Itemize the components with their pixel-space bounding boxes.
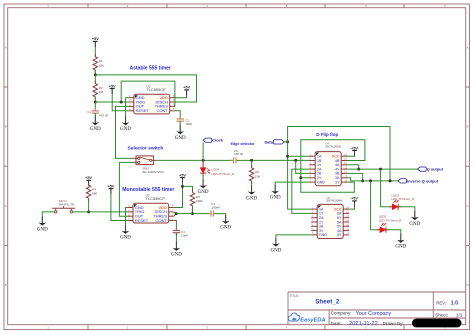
svg-text:Company:: Company: — [331, 311, 352, 316]
svg-text:GND: GND — [171, 253, 182, 258]
wire R6 to ground — [251, 181, 253, 192]
wire clock node to LED4 — [202, 160, 204, 167]
wire +5V to R1 — [94, 41, 96, 56]
svg-text:4Y: 4Y — [337, 233, 342, 237]
net flag Inverse Q output — [398, 178, 439, 183]
wire R6 top — [251, 160, 253, 168]
LED LED4 — [200, 162, 235, 177]
svg-text:LED4: LED4 — [212, 168, 220, 172]
wire clock node to U4 2B pin — [296, 160, 310, 173]
svg-text:Clock: Clock — [212, 138, 223, 143]
svg-text:SN74LS00N: SN74LS00N — [325, 144, 341, 148]
wire LED4 to ground — [202, 173, 204, 185]
node +5V/R3 branch — [181, 185, 184, 188]
svg-text:Astable 555 timer: Astable 555 timer — [130, 66, 171, 72]
svg-text:Q output: Q output — [427, 167, 444, 172]
svg-text:GND: GND — [409, 222, 420, 227]
svg-text:+5V: +5V — [85, 175, 92, 180]
net flag Data — [264, 139, 284, 144]
wire R2 to TRIG node — [94, 97, 96, 102]
svg-text:2B: 2B — [317, 172, 322, 176]
capacitor C3 — [173, 227, 188, 237]
svg-text:GND: GND — [246, 196, 257, 201]
node Q/LED2 junction — [379, 168, 382, 171]
wire U4 3B to inverse Q line — [346, 173, 362, 181]
svg-text:TLC555CP: TLC555CP — [146, 87, 166, 92]
node TRIG loop junction — [120, 101, 123, 104]
net flag Clock — [203, 138, 224, 143]
ground (LED3) — [395, 234, 406, 250]
wire +5V to U1 RESET — [112, 89, 129, 111]
wire C4 to ground — [215, 214, 226, 221]
switch SW1 — [134, 156, 164, 174]
svg-text:D Flip flop: D Flip flop — [316, 132, 338, 137]
svg-text:Data: Data — [264, 139, 273, 144]
svg-text:SK-12D02-VG3: SK-12D02-VG3 — [142, 170, 163, 174]
svg-text:GND: GND — [319, 233, 327, 237]
svg-text:+5V: +5V — [179, 172, 186, 177]
svg-text:+5V: +5V — [351, 196, 358, 201]
resistor R1 — [93, 54, 104, 73]
redacted drawn-by name — [412, 319, 462, 328]
svg-text:10nF: 10nF — [181, 233, 188, 237]
node R1/R2 junction — [94, 73, 97, 76]
svg-text:Sheet_2: Sheet_2 — [315, 299, 340, 306]
svg-text:RESET: RESET — [135, 218, 149, 223]
svg-text:RESET: RESET — [136, 108, 150, 113]
wire R1/R2 node to DISCH — [95, 75, 196, 102]
EasyEDA logo — [288, 313, 325, 323]
wire U2 DISCH/THRES to C4 — [174, 212, 176, 214]
capacitor C1 — [87, 108, 108, 118]
svg-text:R6: R6 — [255, 170, 259, 174]
LED LED3 — [377, 215, 402, 233]
svg-text:D: D — [467, 283, 469, 287]
svg-text:C: C — [5, 204, 7, 208]
+5V power flag (R1 top) — [92, 36, 99, 47]
svg-text:+5V: +5V — [92, 36, 99, 41]
svg-text:GND: GND — [120, 127, 131, 132]
ground (KEY1) — [37, 216, 48, 232]
+5V power flag (U2 VDD / R3) — [179, 172, 186, 183]
wire KEY1 to U2 TRIG — [73, 211, 129, 213]
resistor R2 — [93, 81, 103, 100]
svg-text:A: A — [467, 45, 469, 49]
svg-text:GND: GND — [395, 245, 406, 250]
wire U4 3A to inverse Q line — [346, 178, 350, 181]
ground (U4 GND pin) — [270, 185, 281, 201]
ground (C4) — [220, 215, 231, 231]
svg-text:LED-TH-5mm_R: LED-TH-5mm_R — [212, 172, 235, 176]
wire C1 to ground — [94, 113, 96, 122]
ground (C2) — [175, 125, 186, 141]
svg-text:GND: GND — [90, 127, 101, 132]
wire LED3 to ground — [386, 230, 401, 240]
wire Q line to LED2 — [381, 169, 393, 207]
op-amp U2 (TLC555CP monostable) — [128, 193, 174, 223]
svg-text:R4: R4 — [92, 187, 96, 191]
wire switch common to clock line — [156, 159, 232, 161]
wire +5V to U2 VDD — [174, 178, 183, 208]
wire R3 to THRES line — [192, 206, 194, 214]
svg-text:GND: GND — [220, 226, 231, 231]
wire loop node to U4 2Y pin — [301, 177, 310, 179]
wire Q output line — [346, 168, 417, 170]
node clock/LED4 — [202, 159, 205, 162]
svg-text:EasyEDA: EasyEDA — [300, 317, 325, 323]
svg-text:1M: 1M — [99, 90, 104, 94]
wire TRIG to THRES loop — [121, 81, 175, 106]
svg-text:GND: GND — [317, 180, 325, 184]
logic IC U3 (SN74LS04N) — [311, 196, 349, 239]
node DISCH/THRES tie — [175, 212, 178, 215]
svg-text:1.0: 1.0 — [451, 301, 458, 307]
svg-text:+5V: +5V — [183, 85, 190, 90]
svg-text:10k: 10k — [255, 175, 260, 179]
svg-text:Sheet:: Sheet: — [435, 313, 448, 318]
wire R4 to TRIG line — [88, 198, 90, 212]
wire +5V to U4 VCC — [346, 151, 354, 157]
wire U4 GND pin to ground — [275, 182, 309, 191]
ground (LED4) — [198, 179, 209, 195]
svg-text:Edge detector: Edge detector — [231, 142, 256, 146]
svg-text:B: B — [5, 125, 7, 129]
capacitor C4 — [208, 202, 220, 217]
ground (C1) — [90, 116, 101, 132]
+5V power flag (U2 RESET) — [107, 183, 114, 194]
svg-text:1/1: 1/1 — [456, 313, 463, 319]
svg-text:B: B — [467, 125, 469, 129]
wire C2 to ground — [179, 121, 181, 131]
svg-text:D: D — [5, 283, 7, 287]
net flag Q output — [418, 167, 444, 172]
push button KEY1 — [52, 199, 75, 213]
svg-text:3Y: 3Y — [335, 180, 340, 184]
capacitor C5 (edge detector) — [230, 149, 243, 164]
op-amp U1 (TLC555CP astable) — [129, 84, 175, 114]
node loop to U4 2Y — [299, 176, 302, 179]
svg-text:+5V: +5V — [107, 183, 114, 188]
wire +5V to U1 VDD — [175, 90, 187, 98]
wire +5V to U2 RESET — [111, 189, 129, 221]
svg-text:Selector switch: Selector switch — [128, 145, 164, 151]
svg-text:3B: 3B — [335, 172, 340, 176]
svg-text:A: A — [5, 45, 7, 49]
svg-text:GND: GND — [37, 227, 48, 232]
svg-text:TLC555CP: TLC555CP — [146, 196, 166, 201]
node loop to U4 1A — [286, 155, 289, 158]
+5V power flag (U4 VCC) — [351, 145, 358, 156]
wire clock node to Clock flag — [202, 142, 204, 160]
wire +5V node to R3 — [183, 186, 193, 192]
svg-text:Date:: Date: — [331, 321, 342, 326]
svg-text:2021-11-22: 2021-11-22 — [349, 321, 378, 327]
svg-text:GND: GND — [270, 248, 281, 253]
ground (R6) — [246, 185, 257, 201]
wire U4 4A to Q line — [346, 165, 358, 169]
svg-text:SN74LS04N: SN74LS04N — [326, 199, 342, 203]
wire U4 2A to U3 1Y — [292, 169, 312, 213]
svg-text:R1: R1 — [99, 59, 103, 63]
+5V power flag (R4 top) — [85, 175, 92, 186]
svg-text:680: 680 — [92, 192, 97, 196]
+5V power flag (U1 VDD) — [183, 85, 190, 96]
svg-text:LED-TH-3mm_R: LED-TH-3mm_R — [391, 197, 414, 201]
svg-text:10k: 10k — [99, 63, 104, 67]
svg-text:Your Company: Your Company — [356, 311, 392, 317]
wire U1 OUT to selector switch — [116, 106, 134, 158]
svg-text:Drawn By:: Drawn By: — [383, 321, 404, 326]
node invQ/loop junction — [389, 179, 392, 182]
svg-text:C1: C1 — [87, 110, 91, 114]
svg-text:470 nF: 470 nF — [99, 113, 109, 117]
svg-text:GND: GND — [175, 136, 186, 141]
node R3/THRES junction — [191, 212, 194, 215]
ground (LED2) — [409, 211, 420, 227]
wire U3 GND pin to ground — [276, 235, 311, 244]
wire inverse Q output line — [350, 180, 398, 182]
node clock to U4 2B — [294, 159, 297, 162]
wire KEY1 left to ground — [42, 212, 54, 223]
wire +5V to U3 VCC — [349, 201, 354, 209]
resistor R4 — [86, 182, 97, 201]
+5V power flag (U3 VCC) — [351, 196, 358, 207]
wire U2 CONT to C3 — [174, 221, 177, 231]
wire U4 2Y/3Y/4B loop — [301, 140, 365, 192]
svg-text:Monostable 555 timer: Monostable 555 timer — [122, 187, 174, 193]
capacitor C2 — [177, 116, 193, 126]
wire THRES node to C4 — [176, 213, 210, 215]
wire LED2 to ground — [398, 207, 415, 217]
svg-text:CONT: CONT — [157, 108, 169, 113]
LED LED2 — [389, 194, 415, 210]
svg-text:TITLE:: TITLE: — [289, 294, 299, 298]
node TRIG/C1 junction — [94, 101, 97, 104]
svg-text:+5V: +5V — [351, 145, 358, 150]
ground (C3) — [171, 242, 182, 258]
wire U1 GND pin to ground — [126, 98, 129, 123]
wire switch to U2 OUT — [119, 162, 133, 216]
svg-text:100k: 100k — [196, 199, 203, 203]
svg-text:LED-TH-3mm_R: LED-TH-3mm_R — [379, 218, 402, 222]
wire +5V to R4 — [88, 180, 90, 185]
wire Data flag to loop — [284, 141, 287, 143]
wire node to R2 — [94, 75, 96, 84]
node 4A/Q junction — [357, 168, 360, 171]
node R4/KEY1/TRIG junction — [87, 210, 90, 213]
svg-text:10pF: 10pF — [185, 122, 192, 126]
wire U1 CONT to C2 — [175, 111, 180, 118]
svg-text:REV:: REV: — [436, 301, 446, 306]
svg-text:GND: GND — [270, 196, 281, 201]
wire C5 to U4 1B — [237, 159, 309, 161]
node Data/loop junction — [286, 140, 289, 143]
svg-text:+5V: +5V — [109, 83, 116, 88]
wire U2 GND pin to ground — [126, 208, 129, 231]
svg-text:Inverse Q output: Inverse Q output — [407, 178, 439, 183]
wire loop node to U4 1A pin — [288, 155, 310, 157]
ground (U1 GND pin) — [120, 116, 131, 132]
title block — [288, 292, 466, 325]
ground (U3 GND pin) — [270, 237, 281, 253]
svg-text:470 nF: 470 nF — [234, 152, 244, 156]
wire TRIG node to U1 TRIG pin — [95, 101, 129, 103]
wire R1 to node — [94, 70, 96, 75]
svg-text:R3: R3 — [196, 195, 200, 199]
node invQ/LED3 junction — [369, 179, 372, 182]
svg-text:GND: GND — [120, 236, 131, 241]
svg-text:CONT: CONT — [156, 218, 168, 223]
svg-text:R4-6*6_TH: R4-6*6_TH — [59, 203, 74, 207]
ground (U2 GND pin) — [120, 225, 131, 241]
svg-text:100nF: 100nF — [211, 205, 220, 209]
resistor R3 — [190, 190, 203, 209]
resistor R6 — [249, 165, 260, 184]
svg-text:C: C — [467, 204, 469, 208]
node 3B/invQ junction — [361, 179, 364, 182]
wire feedback loop (inverse Q to D) — [288, 127, 390, 210]
svg-text:R2: R2 — [99, 86, 103, 90]
logic IC U4 (SN74LS00N) — [309, 141, 347, 185]
wire C3 to ground — [175, 233, 177, 248]
+5V power flag (U1 RESET) — [109, 83, 116, 94]
wire inverse Q line to LED3 — [371, 181, 380, 230]
wire C1 branch — [94, 102, 96, 110]
node edge detector/R6 — [250, 159, 253, 162]
